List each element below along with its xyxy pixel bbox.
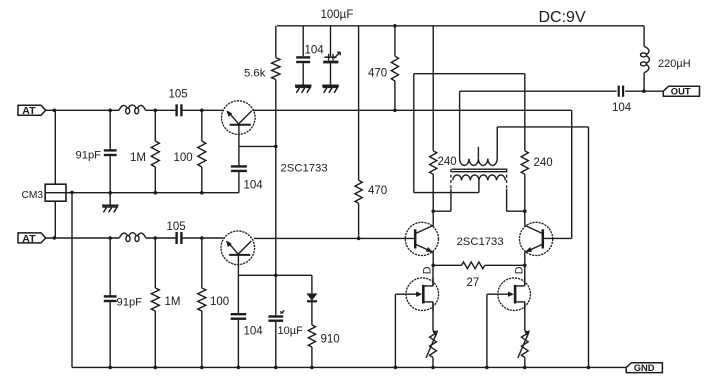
wire secondary centre tap <box>478 180 480 192</box>
wire R100b top <box>201 238 203 288</box>
capacitor C 100uF electrolytic <box>323 52 340 62</box>
wire C105a to Q1 <box>183 109 224 111</box>
wire C91b top <box>109 238 111 296</box>
label 104 Q2 <box>244 325 264 337</box>
svg-text:27: 27 <box>467 277 480 289</box>
svg-text:910: 910 <box>321 334 340 346</box>
svg-text:104: 104 <box>612 102 632 114</box>
resistor R 1M a <box>151 141 159 167</box>
wire Q1 collector line <box>253 109 572 111</box>
capacitor C 104 Q1 <box>231 166 247 171</box>
wire rail drop x359 <box>358 26 360 181</box>
capacitor C 104 bypass <box>296 57 310 62</box>
label 470 b <box>368 185 387 197</box>
label 5.6k <box>244 68 266 80</box>
transistor Q3 2SC1733 <box>405 222 438 255</box>
label 2SC1733 output <box>457 236 504 248</box>
node collector line junction <box>393 109 397 113</box>
capacitor C 91pF a <box>104 150 117 155</box>
capacitor C 104 Q2 <box>231 314 247 319</box>
label 100 b <box>210 296 229 308</box>
wire diode to R910 <box>311 302 313 325</box>
resistor R 1M b <box>151 288 159 311</box>
label 104 output <box>612 102 632 114</box>
wire emitter left <box>433 264 461 266</box>
wire R1Ma bottom <box>154 167 156 193</box>
resistor R 100 b <box>198 288 206 311</box>
wire R100a bottom <box>201 167 203 193</box>
inductor L 220uH <box>641 46 650 73</box>
node ground stub junction <box>108 191 112 195</box>
wire primary right up <box>496 127 498 159</box>
wire feedback left drop <box>413 74 415 193</box>
label 100uF <box>321 9 354 21</box>
node R100 a junction <box>200 109 204 113</box>
wire R100b bottom <box>201 311 203 367</box>
svg-text:1M: 1M <box>165 296 181 308</box>
wire AT2 to coil <box>46 237 120 239</box>
wire rail to choke <box>643 26 645 46</box>
svg-text:470: 470 <box>368 185 387 197</box>
ground under 100uF <box>322 86 338 93</box>
wire rail to C104a <box>302 26 304 56</box>
node R1M b junction <box>154 236 158 240</box>
wire Q2 base lead <box>237 256 239 314</box>
node R100 b junction <box>200 236 204 240</box>
transistor Q1 2SC1733 <box>222 101 256 135</box>
transistor Q4 2SC1733 <box>520 222 553 255</box>
wire R470b to Q3 base line <box>358 203 360 238</box>
wire FET left drain <box>432 265 434 286</box>
node ground rail junction <box>587 366 591 370</box>
wire C91a bottom <box>109 156 111 193</box>
svg-text:D: D <box>422 266 434 274</box>
label 1M a <box>130 152 146 164</box>
node crystal top junction <box>53 109 57 113</box>
resistor R 27 <box>462 262 485 269</box>
wire emitter right <box>485 264 525 266</box>
label 104 Q1 <box>244 179 264 191</box>
wire coil1 to C105a <box>146 109 176 111</box>
wire FET right drain <box>524 265 526 286</box>
wire Q4 base <box>543 237 572 239</box>
wire AT1 to crystal <box>54 110 56 184</box>
node Q2 base bias junction <box>274 274 278 278</box>
node mid rail left junction <box>70 191 74 195</box>
label 104 bypass <box>305 45 325 57</box>
label 240 right <box>534 157 553 169</box>
label D left <box>422 266 434 274</box>
wire mid rail <box>45 192 239 194</box>
node ground rail junction <box>154 366 158 370</box>
svg-text:DC:9V: DC:9V <box>539 9 586 26</box>
node R1M a junction <box>154 109 158 113</box>
node ground rail junction <box>274 366 278 370</box>
capacitor C 10uF <box>268 310 284 320</box>
wire drive drop x571 <box>571 110 573 238</box>
label 100 a <box>174 152 193 164</box>
node rail junction R470a <box>393 24 397 28</box>
node ground rail junction <box>237 366 241 370</box>
wire C91a top <box>109 110 111 150</box>
wire primary tap to C104out <box>460 90 617 92</box>
svg-text:240: 240 <box>534 157 553 169</box>
capacitor C 105 b <box>177 232 182 244</box>
svg-text:AT: AT <box>22 233 36 245</box>
node ground rail junction <box>310 366 314 370</box>
inductor L1 <box>119 105 146 114</box>
wire ground stub <box>109 193 111 205</box>
resistor R 240 left <box>430 151 437 174</box>
node R100 a bottom <box>200 191 204 195</box>
wire feedback right drop <box>524 74 526 151</box>
ground under 104 <box>295 86 311 93</box>
node Q3 base junction <box>357 237 361 241</box>
resistor R 240 right <box>521 151 528 174</box>
wire Q3 emitter <box>432 252 434 265</box>
wire bias vertical <box>275 80 277 147</box>
wire feedback bottom <box>414 192 479 194</box>
node ground rail junction <box>431 366 435 370</box>
capacitor C 91pF b <box>104 296 117 301</box>
wire FET left gate drop <box>394 294 396 367</box>
wire R1Mb bottom <box>154 311 156 367</box>
wire C10uF bottom <box>275 322 277 368</box>
connector AT lower <box>18 233 46 245</box>
node ground rail junction <box>394 366 398 370</box>
wire bias vertical 2 <box>275 146 277 275</box>
node C91pF b junction <box>108 236 112 240</box>
wire R1Ma top <box>154 110 156 141</box>
label D right <box>514 266 526 274</box>
transformer T1 primary centre stub <box>477 147 479 159</box>
wire FET right source <box>524 302 526 331</box>
rheostat right <box>518 331 530 359</box>
wire R470a to collector line <box>394 81 396 110</box>
node ground rail junction <box>200 366 204 370</box>
transformer T1 primary <box>460 159 498 166</box>
svg-text:105: 105 <box>169 89 188 101</box>
wire rail to R470a <box>394 26 396 56</box>
wire AT1 to coil <box>46 109 119 111</box>
svg-text:104: 104 <box>305 45 325 57</box>
transistor Q2 2SC1733 <box>221 231 255 265</box>
wire diode drop <box>311 275 313 293</box>
wire FET right gate drop <box>486 294 488 367</box>
capacitor C 104 output <box>619 86 623 97</box>
node crystal bottom junction <box>53 236 57 240</box>
resistor 5.6k <box>272 58 280 80</box>
svg-text:91pF: 91pF <box>76 150 102 162</box>
transformer T1 core <box>452 169 508 172</box>
wire R240a to Q3 collector <box>432 174 434 226</box>
label 105 b <box>167 221 186 233</box>
label 10uF <box>278 325 304 337</box>
svg-text:OUT: OUT <box>671 86 691 97</box>
node ground rail junction <box>523 366 527 370</box>
wire coil2 to C105b <box>146 237 176 239</box>
svg-text:100: 100 <box>174 152 193 164</box>
svg-text:2SC1733: 2SC1733 <box>281 163 328 175</box>
wire R1Mb top <box>154 238 156 288</box>
rheostat left <box>426 331 438 359</box>
node Q3 emitter junction <box>431 264 435 268</box>
wire Q1 base lead <box>238 125 240 166</box>
ground mid <box>102 205 118 212</box>
wire ground drop x588 <box>588 127 590 368</box>
transformer T1 secondary <box>453 175 506 180</box>
capacitor C 105 a <box>177 104 182 116</box>
wire C10uF top <box>275 275 277 315</box>
svg-text:100: 100 <box>210 296 229 308</box>
label 470 a <box>368 68 387 80</box>
transistor FET right <box>497 277 530 311</box>
wire rail to R 5.6k <box>275 26 277 58</box>
wire rheostat right to rail <box>524 358 526 368</box>
resistor R 470 Q3 bias <box>355 180 362 203</box>
label 91pF a <box>76 150 102 162</box>
svg-text:240: 240 <box>438 156 457 168</box>
node out junction <box>642 89 646 93</box>
svg-text:CM3: CM3 <box>22 190 44 201</box>
wire FET left gate <box>395 293 406 295</box>
wire left ground drop <box>71 192 73 367</box>
wire FET right gate <box>487 293 498 295</box>
wire FET left source <box>432 302 434 331</box>
svg-text:AT: AT <box>22 105 36 117</box>
wire secondary right lead <box>507 189 525 211</box>
svg-text:10µF: 10µF <box>278 325 304 337</box>
wire primary ground run <box>497 126 588 128</box>
transformer secondary left lead dashed <box>450 169 452 190</box>
wire R100a top <box>201 110 203 141</box>
wire feedback top <box>414 73 525 75</box>
svg-text:D: D <box>514 266 526 274</box>
wire choke to out node <box>643 73 645 91</box>
label 2SC1733 osc <box>281 163 328 175</box>
label 1M b <box>165 296 181 308</box>
ground rail <box>72 366 626 368</box>
wire Q1 base to bias <box>239 145 276 147</box>
resistor R 910 <box>308 325 315 347</box>
node Q4 emitter junction <box>523 264 527 268</box>
wire secondary left lead <box>433 189 451 211</box>
node ground rail junction <box>108 366 112 370</box>
node secondary-left junction <box>431 209 435 213</box>
label 910 <box>321 334 340 346</box>
svg-text:470: 470 <box>368 68 387 80</box>
svg-text:220µH: 220µH <box>658 58 691 70</box>
wire Q2 collector line <box>254 237 414 239</box>
wire rail drop x433 <box>432 26 434 151</box>
wire R240b to Q4 collector <box>524 174 526 226</box>
connector GND <box>626 362 662 373</box>
crystal CM3 <box>45 184 66 201</box>
wire crystal to AT2 <box>54 201 56 238</box>
wire R910 bottom <box>311 347 313 367</box>
wire rheostat left to rail <box>432 358 434 368</box>
connector AT upper <box>18 105 46 117</box>
label 91pF b <box>117 297 143 309</box>
label 105 a <box>169 89 188 101</box>
node R1M a bottom <box>154 191 158 195</box>
node ground rail junction <box>485 366 489 370</box>
svg-text:104: 104 <box>244 325 264 337</box>
node 9V supply rail <box>277 25 644 27</box>
wire C104Q2 bottom <box>237 320 239 368</box>
wire Q4 emitter <box>524 252 526 265</box>
label 27 <box>467 277 480 289</box>
wire primary left lead <box>459 91 461 158</box>
connector OUT <box>663 86 699 97</box>
wire C105b to Q2 <box>183 237 224 239</box>
svg-text:105: 105 <box>167 221 186 233</box>
node Q1 base bias junction <box>274 145 278 149</box>
svg-text:104: 104 <box>244 179 264 191</box>
transistor FET left <box>405 277 438 311</box>
wire C100u to ground <box>330 63 332 85</box>
inductor L2 <box>119 233 146 242</box>
wire mid rail to C104b <box>238 172 240 193</box>
label CM3 <box>22 190 44 201</box>
svg-text:1M: 1M <box>130 152 146 164</box>
wire C104out to OUT <box>625 90 663 92</box>
transformer secondary right lead dashed <box>506 169 508 190</box>
svg-text:5.6k: 5.6k <box>244 68 266 80</box>
label 220uH <box>658 58 691 70</box>
wire C104a to ground <box>302 63 304 85</box>
node secondary-right junction <box>523 209 527 213</box>
resistor R 100 a <box>198 141 206 167</box>
resistor R 470 collector load <box>391 56 398 81</box>
svg-text:2SC1733: 2SC1733 <box>457 236 504 248</box>
diode D1 <box>307 294 317 302</box>
node C91pF a junction <box>108 109 112 113</box>
wire Q2 base to bias <box>238 274 312 276</box>
svg-text:100µF: 100µF <box>321 9 354 21</box>
svg-text:GND: GND <box>634 362 655 373</box>
label 240 left <box>438 156 457 168</box>
wire C91b bottom <box>109 302 111 367</box>
label DC:9V <box>539 9 586 26</box>
wire rail to C100u <box>330 26 332 56</box>
svg-text:91pF: 91pF <box>117 297 143 309</box>
